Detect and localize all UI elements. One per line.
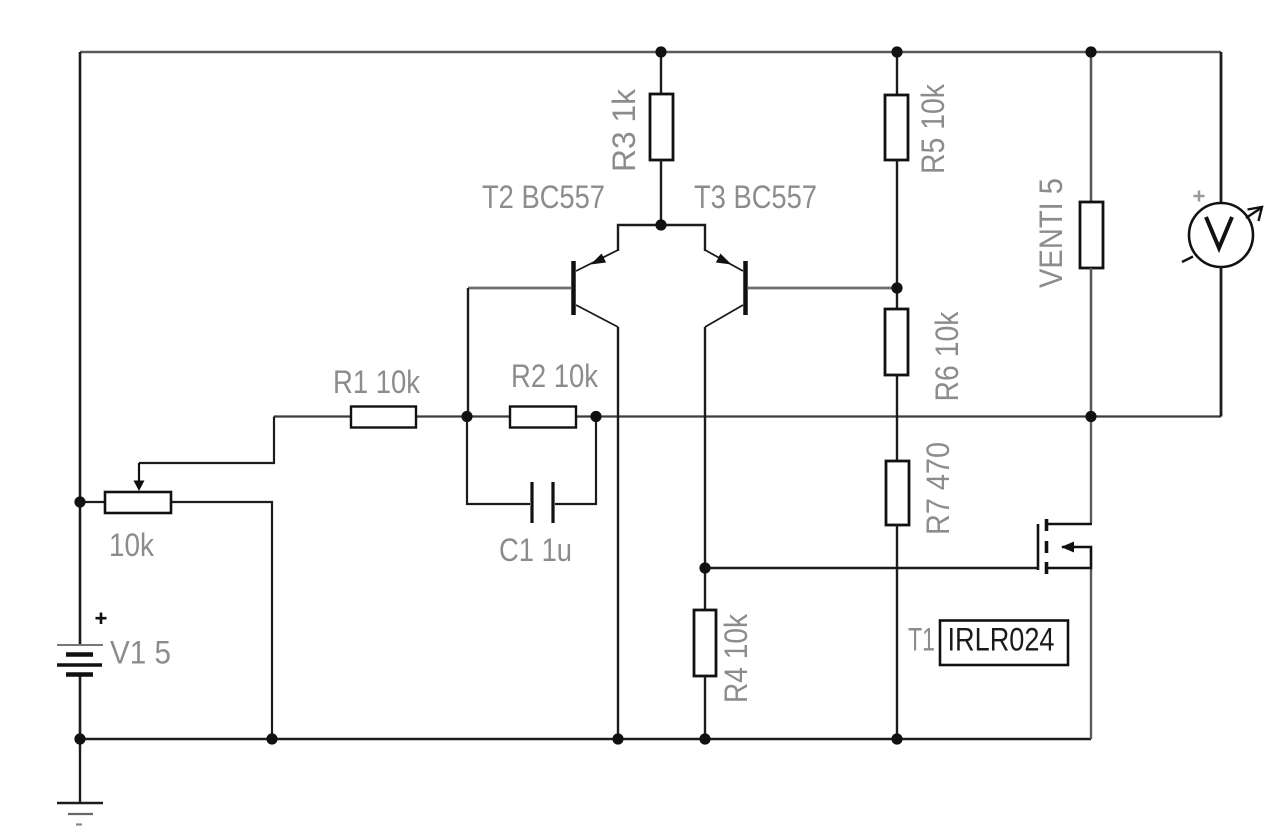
wire R1 left feed from pot wiper <box>139 417 274 464</box>
resistor R5 body <box>885 95 908 160</box>
transistor T2 collector diagonal <box>576 305 618 327</box>
wire R3 bottom stem <box>660 160 662 225</box>
wire T2 base <box>468 287 571 290</box>
wire T2 base down to R1R2 node <box>467 288 469 417</box>
wire VENTI top stem <box>1090 52 1093 202</box>
svg-text:R7 470: R7 470 <box>920 442 956 535</box>
resistor R2 body <box>510 407 576 428</box>
voltmeter V mark <box>1206 217 1232 248</box>
battery V1 plate long <box>57 663 102 667</box>
junction node R1 R2 <box>461 411 472 422</box>
resistor R6 body <box>885 309 908 375</box>
svg-text:VENTI 5: VENTI 5 <box>1033 178 1069 288</box>
capacitor C1 left plate <box>530 482 533 523</box>
MOSFET channel bar body <box>1045 541 1049 553</box>
ground bar 3 <box>76 823 82 825</box>
junction node R2 right <box>590 411 601 422</box>
svg-text:10k: 10k <box>109 527 155 563</box>
box IRLR024 <box>940 621 1068 666</box>
svg-text:R3 1k: R3 1k <box>606 88 642 172</box>
label R6 10k <box>929 311 965 402</box>
label R7 470 <box>920 442 956 535</box>
wire T3 base <box>748 287 897 290</box>
voltmeter arrow upper segment <box>1246 208 1261 218</box>
transistor T3 collector diagonal <box>705 305 743 327</box>
potentiometer body 10k <box>105 492 171 513</box>
junction node VENTI bottom <box>1085 411 1096 422</box>
resistor R1 body <box>351 407 416 428</box>
voltmeter circle <box>1189 203 1253 267</box>
transistor T3 bar <box>743 261 748 315</box>
junction node T2 collector bottom <box>612 733 623 744</box>
junction node top VENTI <box>1085 46 1096 57</box>
wire pot left terminal <box>80 501 105 503</box>
wire MOSFET drain vertical <box>1090 417 1092 524</box>
capacitor C1 right plate <box>551 482 554 523</box>
resistor R3 body <box>650 94 673 160</box>
fan VENTI body <box>1080 202 1103 268</box>
svg-text:R6 10k: R6 10k <box>929 311 965 402</box>
wire bottom rail <box>80 738 1091 741</box>
wire MOSFET source vertical <box>1090 568 1092 739</box>
svg-text:R4 10k: R4 10k <box>718 613 754 703</box>
svg-text:R1 10k: R1 10k <box>333 364 421 400</box>
wire emitter bus <box>618 225 705 251</box>
MOSFET drain lead <box>1048 523 1092 526</box>
wire C1 left leg <box>467 417 530 505</box>
wire R4 top stem <box>704 568 706 610</box>
wire pot right terminal down <box>171 502 272 739</box>
voltmeter plus sign <box>1194 191 1205 202</box>
svg-text:T1: T1 <box>908 622 935 658</box>
wire C1 right leg <box>555 417 596 505</box>
svg-text:C1 1u: C1 1u <box>499 532 572 568</box>
transistor T2 emitter arrowhead <box>591 254 607 265</box>
junction node pot left <box>74 496 85 507</box>
wire R7 to bottom rail <box>896 525 898 739</box>
wire mid horizontal bus y=416 <box>274 415 1221 417</box>
svg-text:R5 10k: R5 10k <box>915 83 951 174</box>
label VENTI 5 <box>1033 178 1069 288</box>
junction node R7 bottom <box>891 733 902 744</box>
label R5 10k <box>915 83 951 174</box>
svg-text:T3 BC557: T3 BC557 <box>694 179 817 215</box>
ground bar 2 <box>68 813 93 815</box>
voltmeter arrowhead <box>1248 207 1263 221</box>
battery plus sign <box>96 613 107 625</box>
wire R5 to R6 <box>896 160 898 309</box>
MOSFET body lead with arrow <box>1061 542 1091 570</box>
transistor T2 bar <box>571 261 576 315</box>
potentiometer wiper arrow <box>134 463 145 491</box>
ground stem <box>79 739 81 803</box>
junction node pot return <box>266 733 277 744</box>
MOSFET channel bar drain <box>1045 519 1049 531</box>
wire top rail <box>80 51 1221 53</box>
MOSFET channel bar source <box>1045 562 1049 574</box>
voltmeter arrow lower segment <box>1182 257 1193 263</box>
wire T2 collector down <box>617 327 619 739</box>
ground bar 1 <box>57 802 103 805</box>
junction node top R3 <box>655 46 666 57</box>
wire R6 to R7 <box>896 375 898 461</box>
junction node R4 bottom <box>699 733 710 744</box>
wire left rail <box>79 52 82 645</box>
battery V1 plate short <box>66 652 93 657</box>
wire R4 bottom stem <box>704 676 706 739</box>
junction node gate R4 <box>699 562 710 573</box>
MOSFET gate bar <box>1037 524 1040 570</box>
wire R3 top stem <box>660 52 662 94</box>
battery V1 plate long top <box>57 644 103 646</box>
wire R5 top stem <box>896 52 898 95</box>
junction node T3 base R5 R6 <box>891 282 902 293</box>
MOSFET source lead <box>1048 567 1092 570</box>
resistor R4 body <box>694 610 716 676</box>
wire VENTI bottom stem <box>1090 268 1093 417</box>
wire T3 collector down <box>704 327 706 568</box>
svg-text:T2 BC557: T2 BC557 <box>482 179 605 215</box>
label R4 10k <box>718 613 754 703</box>
transistor T2 emitter diagonal <box>576 250 618 271</box>
label R3 1k <box>606 88 642 172</box>
svg-text:IRLR024: IRLR024 <box>948 622 1055 658</box>
junction node emitter bus <box>655 219 666 230</box>
transistor T3 emitter diagonal <box>705 250 743 271</box>
junction node battery bottom <box>74 733 85 744</box>
wire gate feed <box>705 567 1038 569</box>
wire battery to bottom rail <box>79 675 82 739</box>
resistor R7 body <box>886 461 909 525</box>
wire voltmeter top stem <box>1220 52 1223 203</box>
svg-text:V1 5: V1 5 <box>110 635 171 671</box>
transistor T3 emitter arrowhead <box>716 254 732 265</box>
junction node top R5 <box>891 46 902 57</box>
svg-text:R2 10k: R2 10k <box>511 358 599 394</box>
wire voltmeter bottom stem <box>1220 267 1223 417</box>
battery V1 plate short bottom <box>66 672 93 677</box>
